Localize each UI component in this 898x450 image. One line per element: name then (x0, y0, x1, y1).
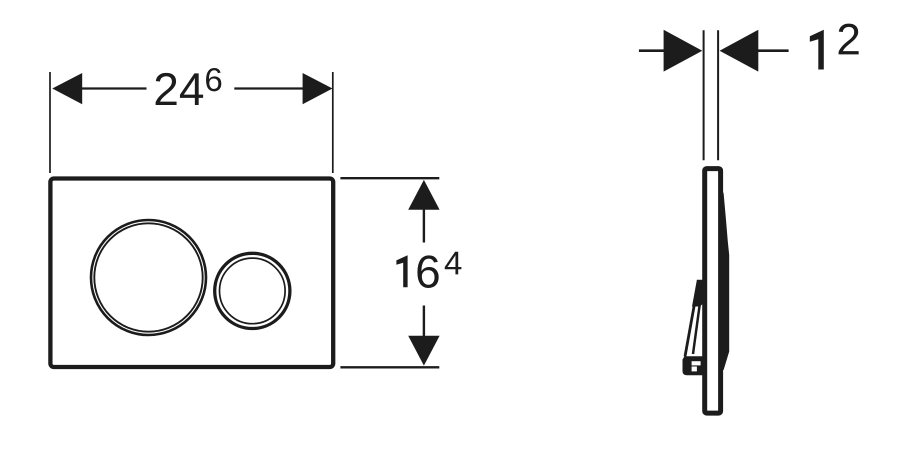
side view mounting foot (683, 356, 704, 375)
side view actuator lever outer edge (685, 281, 699, 357)
thickness dimension left tail line (639, 49, 665, 52)
thickness dimension left arrow (664, 30, 703, 72)
thickness dimension value 12 superscript 2 (839, 24, 859, 55)
height dimension top extension line (340, 177, 439, 179)
width dimension right line (234, 87, 303, 89)
width dimension left line (81, 87, 147, 89)
width dimension right extension line (332, 72, 334, 173)
large flush button inner ring (94, 223, 202, 331)
side view mounting foot slot A (692, 361, 701, 365)
side view actuator lever inner edge (693, 293, 701, 354)
thickness dimension right extension line (717, 30, 719, 160)
width dimension left arrow (52, 73, 82, 104)
height dimension value 164 digit 6 (417, 255, 438, 288)
small flush button outer ring (215, 253, 290, 328)
width dimension right arrow (303, 73, 333, 104)
height dimension upper line (423, 209, 425, 243)
side view mounting foot slot B (692, 367, 697, 372)
thickness dimension right tail line (757, 49, 789, 52)
side view plate body (705, 169, 721, 414)
width dimension left extension line (49, 72, 51, 173)
height dimension value 164 digit 1 (396, 255, 407, 287)
height dimension value 164 superscript 4 (445, 252, 462, 275)
height dimension bottom extension line (340, 366, 439, 368)
side view rear frame bulge (719, 192, 729, 370)
height dimension lower line (423, 306, 425, 337)
front view plate outline (50, 179, 333, 368)
height dimension down arrow (408, 336, 439, 366)
small flush button inner ring (220, 258, 286, 324)
side view actuator lever top joint (692, 280, 703, 307)
thickness dimension left extension line (703, 30, 705, 160)
thickness dimension right arrow (720, 30, 759, 72)
width dimension value 246 (156, 73, 177, 105)
thickness dimension value 12 digit 1 (810, 30, 824, 70)
height dimension up arrow (408, 180, 439, 210)
large flush button outer ring (91, 220, 206, 335)
